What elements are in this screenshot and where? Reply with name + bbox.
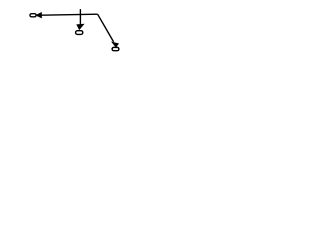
wire: diagonal from bend node toward J3 bbox=[98, 14, 114, 42]
terminal J3 (bottom-right socket capsule) bbox=[112, 47, 119, 50]
background bbox=[0, 0, 150, 61]
wire: vertical branch to J2 bbox=[79, 9, 81, 25]
wire: J1 arrow to bend node bbox=[42, 14, 98, 15]
terminal J1 (left socket capsule) bbox=[30, 14, 36, 17]
arrowhead into J1 (pointing left) bbox=[37, 13, 42, 17]
arrowhead into J2 (pointing down) bbox=[77, 25, 83, 29]
terminal J2 (middle socket capsule) bbox=[76, 31, 83, 35]
arrowhead into J3 (tilted along diagonal wire) bbox=[113, 43, 118, 47]
